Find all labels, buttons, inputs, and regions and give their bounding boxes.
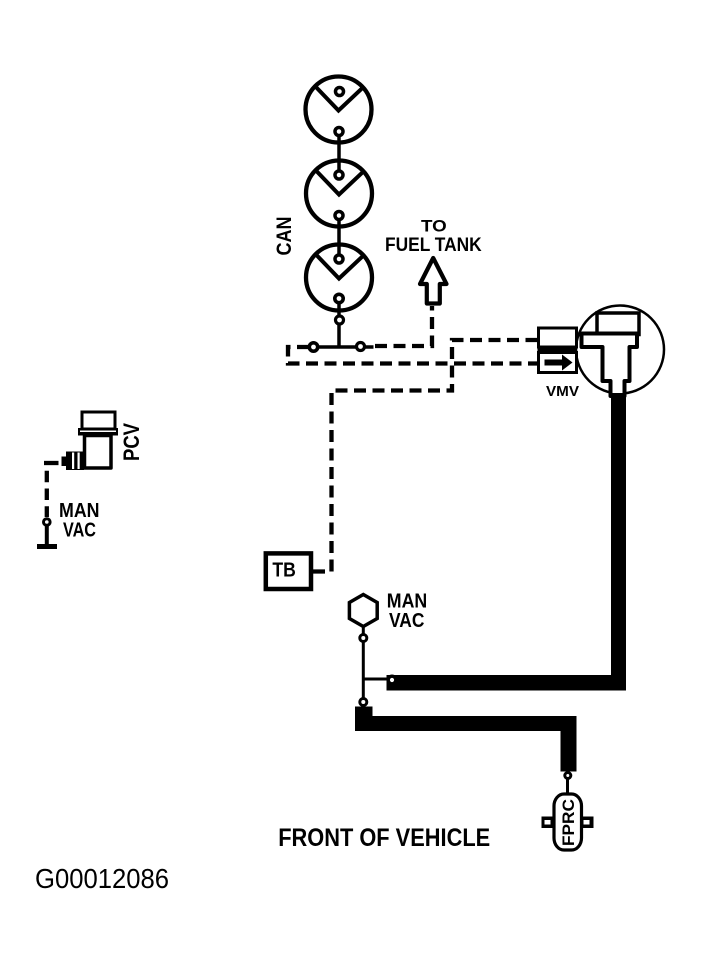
hose: VMV down (thick) [611, 393, 626, 691]
junction left port [309, 343, 317, 351]
svg-text:CAN: CAN [272, 217, 296, 256]
canister C3 top port [335, 255, 343, 263]
junction right port [357, 343, 365, 351]
svg-text:VAC: VAC [63, 520, 96, 542]
dashed vacuum line: junction left to VMV lower port [288, 347, 537, 364]
wire: hose ring to MAN VAC line [363, 678, 389, 681]
MAN VAC node (left) [44, 519, 51, 526]
wire: canister C3 bottom port down to junction bar [337, 293, 341, 347]
PCV body [85, 436, 112, 469]
arrow to fuel tank [420, 258, 447, 304]
svg-text:FRONT OF VEHICLE: FRONT OF VEHICLE [278, 824, 490, 852]
VMV T-valve outline [582, 334, 638, 397]
svg-text:VMV: VMV [546, 383, 579, 400]
canister circle C2 [306, 161, 372, 227]
canister C2 bottom port [335, 212, 343, 220]
VMV lower port rect [539, 353, 577, 373]
manifold terminal bar [37, 544, 57, 549]
hose: manifold node to FPRC (thick) [355, 707, 577, 772]
svg-text:PCV: PCV [119, 423, 144, 461]
svg-text:TB: TB [272, 560, 296, 582]
node below hexagon [360, 635, 367, 642]
VMV cap rectangle [597, 313, 639, 335]
dashed vacuum line: PCV to MAN VAC node [44, 463, 59, 517]
canister C1 bottom port [335, 128, 343, 136]
wire: ring to FPRC [566, 779, 569, 794]
MAN VAC hexagon [349, 595, 377, 627]
wire: hexagon to node [362, 627, 365, 635]
dashed vacuum line: junction right up to fuel tank arrow [375, 306, 432, 346]
svg-text:TO: TO [421, 216, 447, 235]
svg-text:FPRC: FPRC [560, 799, 578, 846]
canister circle C1 [306, 77, 372, 143]
svg-text:VAC: VAC [389, 610, 424, 632]
VMV port separator band [538, 346, 577, 354]
node below canister C3 [336, 316, 344, 324]
svg-text:G00012086: G00012086 [35, 863, 169, 894]
PCV flange band [78, 428, 118, 436]
TB box [266, 553, 311, 589]
canister circle C3 [306, 245, 372, 311]
VMV upper port rect [539, 328, 577, 347]
VMV flow arrow [545, 355, 573, 371]
svg-text:FUEL TANK: FUEL TANK [385, 234, 482, 256]
node above lower hose [360, 699, 367, 706]
hose end ring [388, 676, 396, 684]
wire: canister C2 bottom port to C3 top port [337, 212, 341, 260]
hose: horizontal to manifold node (thick) [387, 675, 627, 691]
canister C3 bottom port [335, 294, 343, 302]
dashed vacuum line: TB box to VMV upper port [313, 340, 537, 572]
wire: node down to hose node [362, 642, 365, 699]
VMV body circle [576, 306, 664, 394]
wire: canister C1 bottom port to C2 top port [337, 128, 341, 176]
FPRC left wing [542, 817, 555, 829]
hose end ring above FPRC [565, 773, 571, 779]
FPRC right wing [581, 817, 594, 829]
canister C1 top port [336, 88, 344, 96]
canister C2 top port [335, 171, 343, 179]
wire: node to manifold terminal [45, 526, 49, 546]
FPRC capsule [554, 794, 582, 850]
junction bar under canister [311, 345, 374, 349]
PCV valve top rect [82, 412, 115, 429]
PCV ribbed nipple [62, 452, 85, 471]
